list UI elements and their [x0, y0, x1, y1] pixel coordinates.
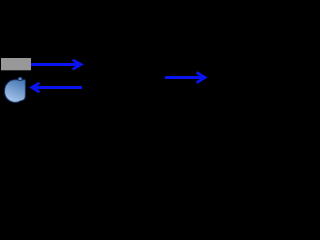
arrow A2 head — [32, 83, 40, 92]
arrow A3 head — [197, 72, 205, 82]
arrow A1 head — [73, 60, 82, 70]
gray block (wall) — [1, 58, 31, 70]
arrow A2 shaft (middle, pointing left) — [33, 86, 82, 89]
arrow A3 shaft (right, pointing right) — [165, 76, 204, 79]
arrow A1 shaft (top, pointing right) — [31, 63, 80, 66]
balloon body (teardrop) — [5, 80, 26, 103]
balloon nozzle bump — [18, 77, 22, 80]
